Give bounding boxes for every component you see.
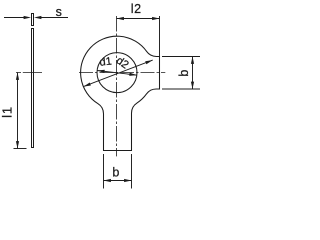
b (right tab) dimension line — [192, 57, 194, 90]
dimension s line left part — [4, 17, 25, 19]
svg-text:b: b — [177, 70, 191, 77]
dimension l2 line — [117, 18, 160, 20]
b (right tab) top extension line — [162, 56, 200, 58]
side view strip: top short segment — [32, 14, 34, 26]
svg-text:b: b — [112, 165, 119, 179]
svg-text:s: s — [56, 5, 62, 19]
vertical centerline — [116, 16, 118, 156]
side view centerline — [16, 72, 42, 74]
horizontal centerline — [79, 72, 165, 74]
b (right tab) bottom extension line — [162, 88, 200, 90]
svg-text:l1: l1 — [0, 106, 15, 118]
dimension l1 line — [17, 73, 19, 149]
side view strip: main body — [32, 29, 34, 148]
b (bottom tab) right extension line — [131, 154, 133, 189]
svg-text:d1: d1 — [99, 56, 112, 69]
b (bottom tab) dimension line — [104, 180, 132, 182]
face view: washer outline with two tabs — [81, 36, 160, 150]
svg-text:l2: l2 — [131, 2, 142, 16]
dimension d1 (hole diameter) — [97, 71, 137, 76]
l2 right extension line / tab end — [159, 16, 161, 57]
hole circle — [97, 53, 137, 93]
dimension d2 (outer diameter) — [83, 60, 152, 87]
b (bottom tab) left extension line — [103, 154, 105, 189]
l1 bottom extension line — [14, 148, 27, 150]
dimension s line right part — [41, 17, 69, 19]
